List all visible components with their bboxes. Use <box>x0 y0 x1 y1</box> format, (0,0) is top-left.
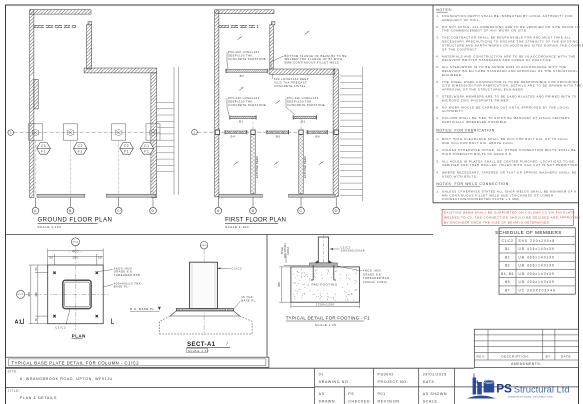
FF grid circle A <box>215 207 222 214</box>
GF leader B <box>69 198 71 208</box>
svg-text:4NOS.-M20: 4NOS.-M20 <box>363 269 381 273</box>
svg-text:MICRONS ZINC PHOSPHATE PRIMER.: MICRONS ZINC PHOSPHATE PRIMER. <box>442 98 510 102</box>
svg-text:DRAWN.: DRAWN. <box>319 399 337 403</box>
svg-text:NOTES: FOR FABRICATION: NOTES: FOR FABRICATION <box>436 129 495 133</box>
svg-text:UB 406x140x39: UB 406x140x39 <box>519 264 555 268</box>
GF hex label C1/F1 <box>37 143 51 155</box>
svg-text:B7: B7 <box>505 288 510 292</box>
svg-text:B3: B3 <box>505 264 510 268</box>
svg-text:SITE:: SITE: <box>8 370 19 374</box>
svg-text:BY:: BY: <box>546 355 552 359</box>
FF mid vertical wall <box>270 25 274 69</box>
FF interior wall <box>219 25 258 27</box>
svg-text:ADEQUACY OF SOIL.: ADEQUACY OF SOIL. <box>442 18 480 22</box>
svg-text:CHECKED.: CHECKED. <box>348 399 371 403</box>
svg-text:X215 THK.PRECAST: X215 THK.PRECAST <box>274 81 307 85</box>
slope arrow <box>319 162 324 165</box>
FF grid line 1 <box>197 131 338 133</box>
note padstone P51 right <box>286 96 325 115</box>
GF grid line 1 <box>14 132 161 134</box>
svg-text:SCALE 1:100: SCALE 1:100 <box>225 225 249 229</box>
svg-text:6.: 6. <box>436 80 439 84</box>
svg-text:ENGINEER.: ENGINEER. <box>442 73 463 77</box>
FF leader A <box>217 197 219 207</box>
svg-text:C: C <box>117 209 120 213</box>
svg-text:B2: B2 <box>505 255 510 259</box>
base plate outline <box>48 265 103 324</box>
svg-text:2.: 2. <box>436 148 439 152</box>
FF grid circle C <box>298 207 305 214</box>
svg-text:TYPICAL BASE PLATE DETAIL FOR: TYPICAL BASE PLATE DETAIL FOR COLUMN - C… <box>12 361 140 366</box>
GF hex label C2/F1 <box>73 143 87 155</box>
svg-text:B2: B2 <box>301 120 306 124</box>
svg-text:UC 203X203X46: UC 203X203X46 <box>519 288 557 292</box>
svg-text:6, WRANGBROOK ROAD, UPTON,: 6, WRANGBROOK ROAD, UPTON, WF91JU <box>20 377 113 381</box>
svg-text:AS SHOWN: AS SHOWN <box>423 392 447 396</box>
svg-text:B: B <box>69 209 72 213</box>
svg-text:REV:: REV: <box>476 355 485 359</box>
grid circle left <box>17 290 25 298</box>
svg-text:DRAWING NO.: DRAWING NO. <box>319 380 350 384</box>
base plate section <box>176 309 233 311</box>
GF leader A <box>35 198 37 208</box>
anchor bolt mark <box>51 269 58 276</box>
svg-text:1: 1 <box>10 131 12 135</box>
GF bottom beam bar left <box>37 194 85 197</box>
svg-text:GRID: GRID <box>201 245 207 247</box>
GF grid circle B <box>67 207 74 214</box>
GF column centerline B <box>69 140 71 194</box>
svg-text:F1: F1 <box>124 149 129 153</box>
svg-text:C1: C1 <box>144 144 150 148</box>
svg-text:F1: F1 <box>41 149 46 153</box>
GF column square grid C <box>112 124 126 140</box>
svg-text:9.: 9. <box>436 116 439 120</box>
beam B5 <box>267 130 289 134</box>
anchor rods <box>311 265 336 280</box>
beam B7 <box>226 69 267 74</box>
slope arrow <box>276 101 281 104</box>
svg-text:P51-440 LONGx215: P51-440 LONGx215 <box>287 96 319 100</box>
GF hex label C1/F1 <box>140 143 154 155</box>
column shaft <box>318 237 328 263</box>
svg-text:B5: B5 <box>505 280 510 284</box>
svg-text:PS: PS <box>348 392 354 396</box>
GF gap in left wall <box>30 75 33 79</box>
svg-text:BASE PL.: BASE PL. <box>241 299 257 303</box>
svg-text:GRADE 8.8: GRADE 8.8 <box>114 270 132 274</box>
svg-text:NOTES:: NOTES: <box>436 8 453 12</box>
FF grid circle D <box>333 207 340 214</box>
svg-text:THREADED BAR: THREADED BAR <box>114 273 141 277</box>
FF leader B <box>252 197 254 207</box>
C1/C2 label <box>330 248 340 250</box>
svg-text:Structural Ltd: Structural Ltd <box>514 384 570 395</box>
svg-text:C1/C2: C1/C2 <box>502 239 514 243</box>
svg-text:50: 50 <box>98 256 102 260</box>
concrete stipple <box>293 269 357 300</box>
svg-text:F1: F1 <box>144 149 149 153</box>
base plate detail box right edge <box>266 235 268 358</box>
vertical centerline <box>74 246 76 330</box>
svg-text:RELEVANT BRITISH STANDARDS AND: RELEVANT BRITISH STANDARDS AND CODES OF … <box>442 58 552 62</box>
FF bottom beam bar left <box>219 194 262 197</box>
GF column centerline A <box>35 140 37 194</box>
svg-text:F1: F1 <box>78 149 83 153</box>
svg-text:P01: P01 <box>378 392 386 396</box>
FF top wall <box>215 10 274 14</box>
svg-text:GRID: GRID <box>18 294 24 296</box>
svg-text:EXISTING BEAM: EXISTING BEAM <box>303 156 307 178</box>
FF staircase <box>340 67 363 201</box>
beam B4 <box>225 130 247 134</box>
GF left wall <box>30 10 34 198</box>
svg-text:C1/C2: C1/C2 <box>55 325 66 329</box>
pad footing outline <box>291 267 360 302</box>
dim 400 top <box>48 249 103 266</box>
GF right wall <box>151 73 157 198</box>
FF leader C <box>300 197 302 207</box>
svg-text:4.: 4. <box>436 54 439 58</box>
GF hex label C2/F1 <box>120 143 134 155</box>
centerline <box>203 249 205 335</box>
FF leader D <box>335 197 337 207</box>
svg-text:C1: C1 <box>41 144 47 148</box>
interior wall gaps <box>44 25 72 28</box>
svg-text:1.: 1. <box>436 14 439 18</box>
svg-text:UB 406x140x39: UB 406x140x39 <box>519 255 555 259</box>
svg-text:B7: B7 <box>240 74 245 78</box>
FF grid circle B <box>250 207 257 214</box>
label base pl <box>103 285 113 288</box>
svg-text:SECT-A1: SECT-A1 <box>187 342 216 348</box>
base plate <box>310 263 338 265</box>
svg-text:TYPICAL DETAIL FOR FOOTING - F: TYPICAL DETAIL FOR FOOTING - F1 <box>286 316 371 321</box>
svg-text:1.: 1. <box>436 190 439 194</box>
slope arrow <box>234 162 239 165</box>
svg-text:THREADED BAR: THREADED BAR <box>363 276 390 280</box>
FF bottom beam bar right <box>289 194 336 197</box>
svg-text:HIGH STRENGTH BOLTS OF GRAD 8.: HIGH STRENGTH BOLTS OF GRAD 8.8. <box>442 152 512 156</box>
svg-text:4NOS.-M20: 4NOS.-M20 <box>114 266 132 270</box>
svg-text:DATE.: DATE. <box>423 380 436 384</box>
grout dim lines <box>279 254 310 302</box>
GF staircase <box>157 67 179 195</box>
horizontal centerline <box>25 293 110 295</box>
svg-text:SHS200x200x8: SHS200x200x8 <box>341 249 365 253</box>
svg-text:AUTHORITY.: AUTHORITY. <box>442 109 464 113</box>
svg-text:GRID: GRID <box>72 241 78 243</box>
GF rear horizontal wall <box>84 68 157 73</box>
svg-text:CONCRETE PADSTONE: CONCRETE PADSTONE <box>228 57 266 61</box>
svg-text:TITLE:: TITLE: <box>8 389 21 393</box>
svg-text:600 LONGX140 DEEP: 600 LONGX140 DEEP <box>274 77 309 81</box>
svg-text:PLAN: PLAN <box>72 334 86 339</box>
svg-text:D: D <box>335 209 338 213</box>
svg-text:4.: 4. <box>436 170 439 174</box>
svg-text:C: C <box>299 209 302 213</box>
svg-text:01: 01 <box>319 372 324 376</box>
GF mid vertical wall <box>87 25 92 69</box>
GF mid wall cap <box>88 22 92 25</box>
red warning note box <box>442 209 580 225</box>
GF leader C <box>118 198 120 208</box>
GF column centerline C <box>118 140 120 194</box>
note padstone P51 left <box>227 96 266 115</box>
logo buildings icon <box>473 374 482 395</box>
svg-text:CONCRETE PADSTONE: CONCRETE PADSTONE <box>287 103 325 107</box>
FF column node <box>299 130 303 134</box>
15 THK BASE PL label <box>234 302 241 310</box>
svg-text:SCALE 1:100: SCALE 1:100 <box>38 225 62 229</box>
svg-text:AMENDMENTS:: AMENDMENTS: <box>511 362 542 366</box>
slope arrow <box>274 162 279 165</box>
FF left wall <box>215 10 219 197</box>
svg-text:C1/C2: C1/C2 <box>341 245 351 249</box>
svg-text:300: 300 <box>34 292 38 297</box>
GF column square grid A <box>29 124 43 140</box>
svg-text:FIRST FLOOR PLAN: FIRST FLOOR PLAN <box>225 217 286 224</box>
svg-text:SCALE.: SCALE. <box>423 399 439 403</box>
grid circle top <box>71 238 79 246</box>
svg-text:50: 50 <box>49 256 53 260</box>
svg-text:B1: B1 <box>505 247 510 251</box>
svg-text:BOTTOM FLANGE OF BEAM B3 TO BE: BOTTOM FLANGE OF BEAM B3 TO BE <box>285 54 347 58</box>
label threaded bar <box>98 270 113 272</box>
svg-text:DEEPx100 THK.: DEEPx100 THK. <box>287 99 313 103</box>
beam B6 <box>307 130 327 134</box>
svg-text:GROUT: GROUT <box>287 246 290 255</box>
FF column node <box>215 130 219 134</box>
FF rear horizontal wall <box>269 69 335 74</box>
dim 400 left <box>29 265 48 324</box>
svg-text:APPROVAL OF THE STRUCTURAL ENG: APPROVAL OF THE STRUCTURAL ENGINEER. <box>442 88 524 92</box>
GF interior wall <box>34 25 76 27</box>
weld wedges <box>315 260 333 263</box>
svg-text:15 THK.: 15 THK. <box>241 295 254 299</box>
svg-text:C2: C2 <box>77 144 83 148</box>
slope arrow <box>305 31 310 34</box>
svg-text:400x400x15 THK.: 400x400x15 THK. <box>114 281 142 285</box>
svg-text:WELDED TO C2. THE CONNECTION S: WELDED TO C2. THE CONNECTION SHOULD BE D… <box>444 215 580 219</box>
existing beam vertical at 301.0 <box>299 117 303 193</box>
anchor bolt mark <box>94 313 101 320</box>
svg-text:/: / <box>227 341 229 346</box>
bolt heads <box>180 309 182 311</box>
svg-text:VERTICALLY WHEREVER POSSIBLE.: VERTICALLY WHEREVER POSSIBLE. <box>442 120 508 124</box>
svg-text:THE COMMENCEMENT OF ANY WORK O: THE COMMENCEMENT OF ANY WORK ON SITE. <box>442 29 528 33</box>
svg-text:3.: 3. <box>436 159 439 163</box>
svg-text:EXISTING BEAM: EXISTING BEAM <box>255 156 259 178</box>
GF grid circle D <box>150 207 157 214</box>
svg-text:A: A <box>217 209 220 213</box>
svg-text:OF THE CONTRACT.: OF THE CONTRACT. <box>442 47 478 51</box>
svg-text:DATE:: DATE: <box>561 355 573 359</box>
interior wall gaps <box>229 25 257 28</box>
svg-text:PS3042: PS3042 <box>378 372 394 376</box>
centerline <box>323 235 325 268</box>
svg-text:SCALE 1:25: SCALE 1:25 <box>315 323 337 327</box>
svg-text:A: A <box>34 209 37 213</box>
svg-text:C1/C2: C1/C2 <box>232 267 243 271</box>
FF mid wall cap <box>271 22 275 25</box>
svg-text:GRADE 8.8: GRADE 8.8 <box>363 272 381 276</box>
note padstone P52 <box>227 50 266 69</box>
anchor bolt mark <box>51 313 58 320</box>
svg-text:B: B <box>252 209 255 213</box>
svg-text:PAD FOOTING: PAD FOOTING <box>312 283 338 287</box>
svg-text:CONCRETE LINTEL: CONCRETE LINTEL <box>274 84 306 88</box>
svg-text:BASE PL.: BASE PL. <box>114 285 130 289</box>
svg-text:B6: B6 <box>316 135 321 139</box>
GF column square grid D <box>146 124 160 140</box>
svg-text:VERIFIED AND THEN DRILLED. HOL: VERIFIED AND THEN DRILLED. HOLES WITH GA… <box>442 163 579 167</box>
GF bottom beam bar right <box>106 194 155 197</box>
C1/C2 label <box>217 267 230 269</box>
svg-text:SCALE 1:10: SCALE 1:10 <box>188 349 209 353</box>
svg-text:B5: B5 <box>276 135 281 139</box>
label C1/C2 <box>66 309 70 325</box>
svg-text:EXISTING BEAM SHALL BE SUPPORT: EXISTING BEAM SHALL BE SUPPORTED ON COLU… <box>444 210 575 214</box>
FF grid circle 1 <box>192 129 198 135</box>
GF leader D <box>152 198 154 208</box>
dim 1200x1200 <box>291 302 360 308</box>
svg-text:D: D <box>151 209 154 213</box>
svg-text:DESCRIPTION:: DESCRIPTION: <box>501 355 529 359</box>
base plate caption bar <box>6 357 269 367</box>
GF grid circle C <box>115 207 122 214</box>
column shaft <box>190 262 218 308</box>
svg-text:AND 3mm FOR BOLT DIA. ABOVE 24: AND 3mm FOR BOLT DIA. ABOVE 24mm. <box>442 141 514 145</box>
svg-text:7.: 7. <box>436 95 439 99</box>
GF grid circle A <box>32 207 39 214</box>
svg-text:P51-440 LONGx215: P51-440 LONGx215 <box>228 96 260 100</box>
beam B1 <box>230 115 256 119</box>
svg-text:PS: PS <box>496 382 512 396</box>
note weld flange <box>271 54 347 68</box>
svg-text:NOTES: FOR WELD CONNECTION: NOTES: FOR WELD CONNECTION <box>436 182 509 186</box>
svg-text:600: 600 <box>277 282 281 287</box>
GF column square grid B <box>63 124 77 140</box>
svg-text:- 400 -: - 400 - <box>69 249 82 253</box>
threaded bar label <box>337 266 362 271</box>
svg-text:SCHEDULE OF MEMBERS: SCHEDULE OF MEMBERS <box>495 230 562 235</box>
beam B2 <box>293 115 316 119</box>
svg-text:300: 300 <box>72 256 78 260</box>
svg-text:400: 400 <box>27 292 31 297</box>
svg-text:2.: 2. <box>436 25 439 29</box>
GF column centerline D <box>152 140 154 194</box>
note lintel <box>273 75 310 89</box>
svg-text:UB 406x140x39: UB 406x140x39 <box>519 272 555 276</box>
svg-text:BY ENGINEER ONCE THE SIZE OF B: BY ENGINEER ONCE THE SIZE OF BEAM IS DET… <box>444 220 551 224</box>
GF left wall pier <box>34 79 38 109</box>
slope arrow <box>239 87 244 90</box>
svg-text:8MM CONTINUOUS FILLET WELD: 8MM CONTINUOUS FILLET WELD <box>285 61 340 65</box>
svg-text:REVISION.: REVISION. <box>378 399 402 403</box>
FF column node <box>334 130 338 134</box>
svg-text:UB 406x140x39: UB 406x140x39 <box>519 247 555 251</box>
logo base arc <box>467 396 496 399</box>
logo cylinder <box>484 380 495 393</box>
svg-text:8.: 8. <box>436 105 439 109</box>
svg-text:DEEPx100 THK.: DEEPx100 THK. <box>228 99 254 103</box>
svg-text:WELDED TOP FLANGE OF B7 WITH: WELDED TOP FLANGE OF B7 WITH <box>285 57 343 61</box>
svg-text:UB 406x140x39: UB 406x140x39 <box>519 280 555 284</box>
svg-text:1.: 1. <box>436 137 439 141</box>
existing beam vertical at 253.0 <box>251 117 255 193</box>
svg-text:1: 1 <box>193 130 195 134</box>
svg-text:AS: AS <box>319 392 325 396</box>
GF top wall <box>30 10 91 14</box>
FF right wall <box>333 69 338 197</box>
grid circle <box>200 242 207 249</box>
svg-text:C2: C2 <box>124 144 130 148</box>
grout wedge <box>170 311 240 316</box>
svg-text:P52-600 LONGx215: P52-600 LONGx215 <box>228 50 260 54</box>
svg-text:CONNECTING/CONNECTED PLATE + 1: CONNECTING/CONNECTED PLATE + 1 MM) <box>442 197 520 201</box>
anchor bolt mark <box>94 269 101 276</box>
svg-text:PLAN & DETAILS: PLAN & DETAILS <box>20 396 57 400</box>
svg-text:B4: B4 <box>231 135 236 139</box>
svg-text:3.: 3. <box>436 36 439 40</box>
svg-text:(300mm LONG): (300mm LONG) <box>363 280 388 284</box>
svg-text:A1: A1 <box>15 319 23 325</box>
svg-text:B1: B1 <box>239 120 244 124</box>
svg-text:GROUND FLOOR PLAN: GROUND FLOOR PLAN <box>38 217 113 224</box>
notes column divider <box>432 5 434 203</box>
svg-text:29/01/2025: 29/01/2025 <box>423 372 447 376</box>
svg-text:5.: 5. <box>436 65 439 69</box>
footing outline dashed <box>159 316 252 334</box>
slope arrow <box>237 37 242 40</box>
svg-text:ENGINEERING EXCELLENCE ; ST: ENGINEERING EXCELLENCE ; STRUCTURALLY SO… <box>508 396 553 399</box>
plans/details separator <box>6 234 434 236</box>
svg-text:1200x1200: 1200x1200 <box>316 302 335 306</box>
svg-text:DEEPx100 THK.: DEEPx100 THK. <box>228 54 254 58</box>
svg-text:USED WITH BOLTS.: USED WITH BOLTS. <box>442 174 478 178</box>
svg-text:SHS 200x200x8: SHS 200x200x8 <box>519 239 556 243</box>
SHS column profile <box>63 280 91 308</box>
svg-text:PROJECT NO.: PROJECT NO. <box>378 380 409 384</box>
FF column node <box>251 130 255 134</box>
section tick right <box>112 319 115 324</box>
svg-text:B.O. BASE PL.: B.O. BASE PL. <box>130 307 156 311</box>
svg-text:CONCRETE PADSTONE: CONCRETE PADSTONE <box>228 103 266 107</box>
GF grid circle 1 <box>8 130 14 136</box>
notes box bottom <box>433 202 579 204</box>
svg-text:B4, B6: B4, B6 <box>501 272 514 276</box>
